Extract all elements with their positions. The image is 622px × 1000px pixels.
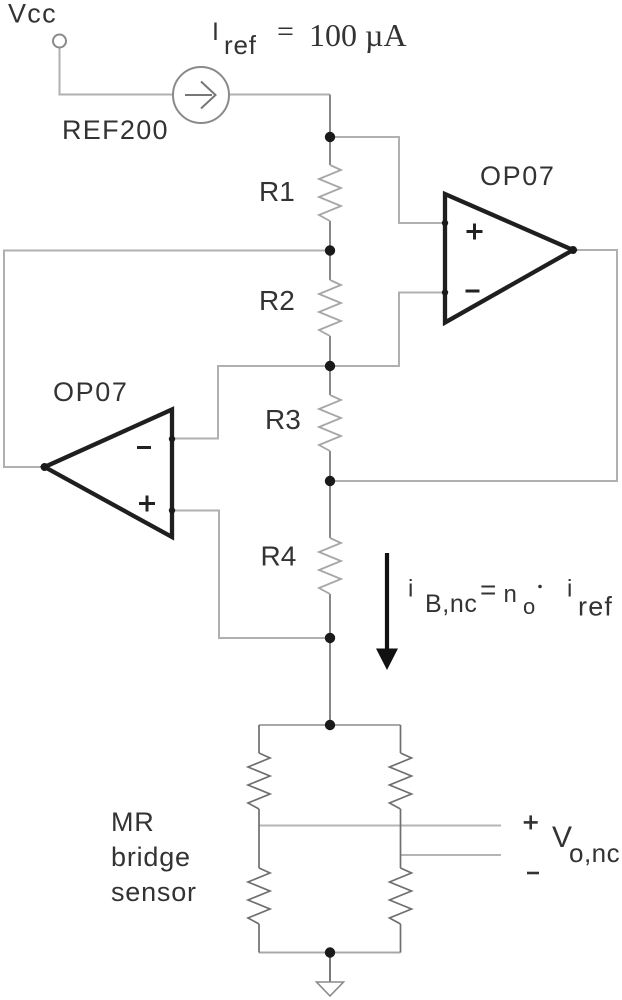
svg-text:=: = [480, 574, 496, 605]
svg-text:ref: ref [578, 592, 613, 622]
svg-text:R3: R3 [265, 404, 301, 435]
svg-text:MR: MR [111, 807, 155, 837]
svg-text:R2: R2 [259, 285, 295, 316]
svg-text:i: i [567, 576, 572, 603]
svg-text:100 µA: 100 µA [309, 17, 407, 53]
svg-text:o,nc: o,nc [569, 838, 620, 868]
svg-text:B,nc: B,nc [425, 590, 477, 618]
svg-text:R1: R1 [259, 176, 295, 207]
svg-text:o: o [523, 594, 535, 619]
svg-text:Vcc: Vcc [8, 0, 57, 29]
svg-text:OP07: OP07 [480, 161, 555, 191]
svg-text:R4: R4 [261, 541, 297, 572]
svg-text:I: I [212, 18, 219, 46]
svg-text:i: i [408, 576, 413, 603]
svg-text:sensor: sensor [111, 877, 197, 907]
svg-text:=: = [277, 15, 294, 48]
svg-text:OP07: OP07 [53, 377, 128, 407]
svg-text:bridge: bridge [111, 842, 191, 872]
svg-text:ref: ref [224, 30, 257, 60]
svg-text:n: n [504, 581, 517, 608]
svg-text:REF200: REF200 [62, 115, 169, 145]
